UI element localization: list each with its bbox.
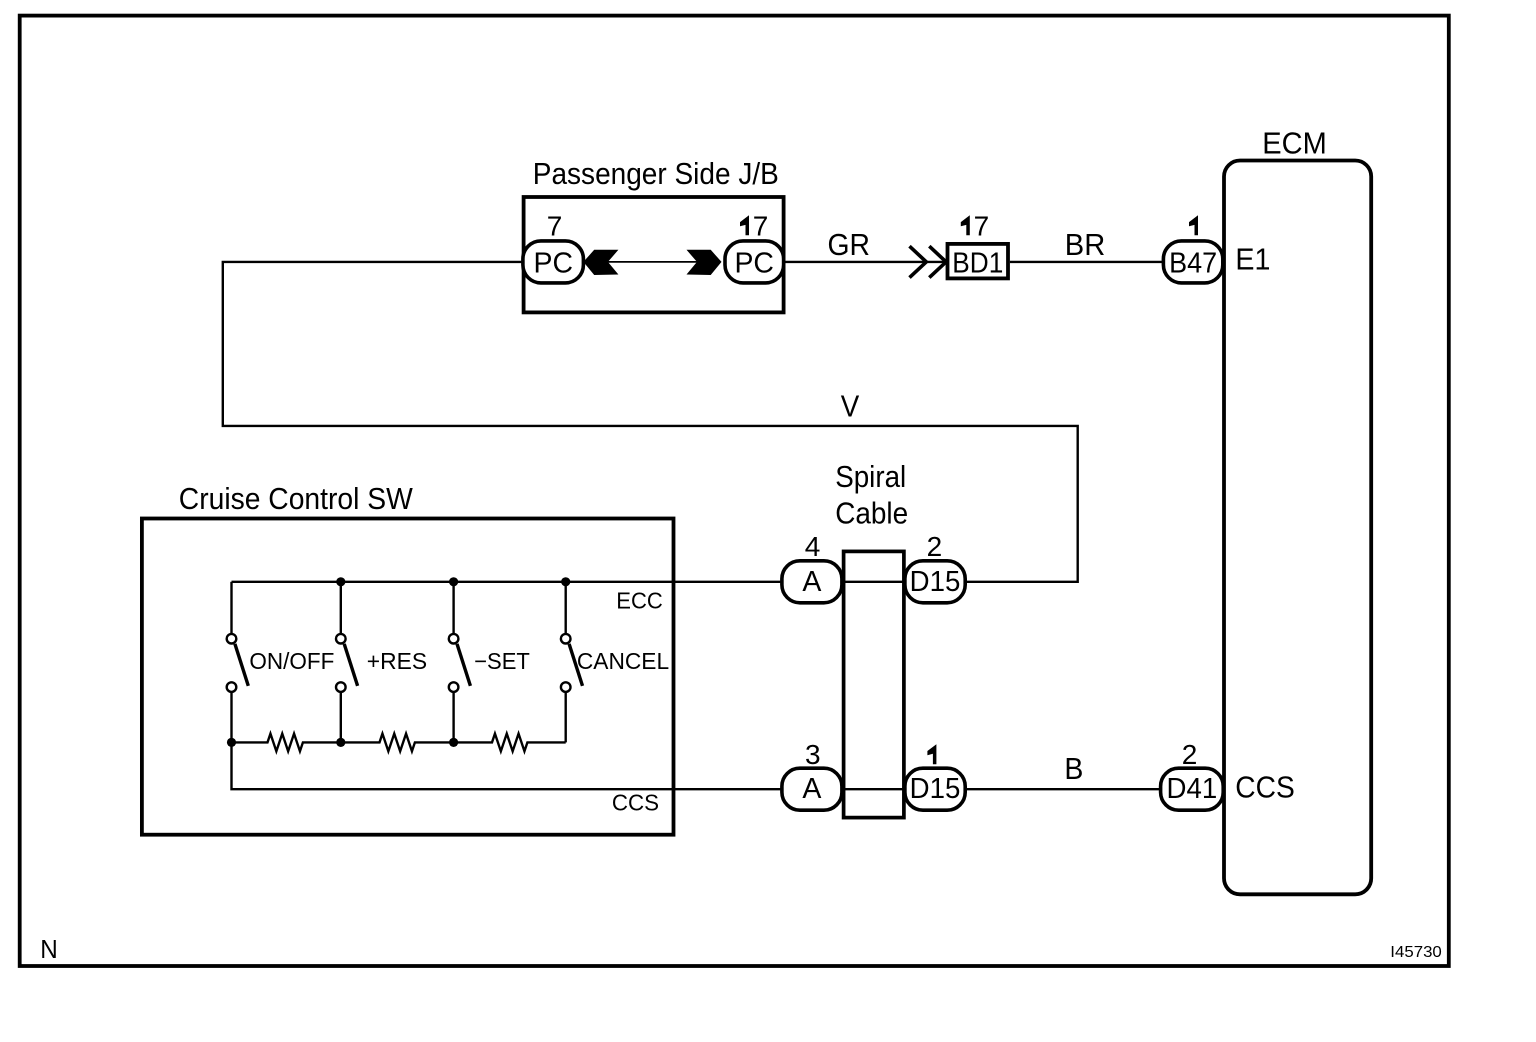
svg-text:CANCEL: CANCEL — [577, 648, 669, 674]
svg-text:3: 3 — [805, 739, 821, 770]
wire CCS row to spiral cable — [783, 788, 963, 790]
svg-text:B47: B47 — [1169, 247, 1217, 279]
svg-text:D15: D15 — [910, 566, 961, 598]
junction top bus / CANCEL column — [561, 577, 570, 586]
svg-text:B: B — [1064, 752, 1083, 786]
switch -SET — [449, 634, 530, 692]
svg-text:Cable: Cable — [835, 497, 908, 531]
svg-text:D41: D41 — [1167, 773, 1218, 805]
svg-text:Passenger Side J/B: Passenger Side J/B — [533, 157, 779, 191]
svg-text:I45730: I45730 — [1390, 944, 1442, 961]
Passenger Side J/B box — [524, 197, 784, 312]
switch ON/OFF — [227, 634, 335, 692]
svg-text:E1: E1 — [1235, 243, 1270, 277]
wire switch column 2 verticals — [340, 582, 342, 634]
junction top bus / +RES column — [336, 577, 345, 586]
svg-text:2: 2 — [927, 531, 943, 562]
svg-text:BR: BR — [1065, 228, 1106, 262]
svg-text:PC: PC — [734, 247, 774, 279]
svg-text:7: 7 — [753, 210, 769, 241]
svg-text:BD1: BD1 — [952, 247, 1003, 279]
svg-text:ON/OFF: ON/OFF — [249, 648, 334, 674]
wire switch column 3 verticals — [452, 582, 454, 634]
arrow into PC 17 (right-pointing) — [687, 250, 722, 275]
svg-text:GR: GR — [828, 228, 871, 262]
svg-text:7: 7 — [547, 210, 563, 241]
connector D15 pin 2 — [905, 531, 965, 603]
wire switch column 1 verticals — [230, 582, 232, 634]
svg-text:7: 7 — [974, 210, 990, 241]
wire between PC arrows — [585, 261, 720, 263]
svg-text:A: A — [802, 773, 821, 805]
svg-text:+RES: +RES — [367, 648, 427, 674]
connector A pin 4 — [782, 531, 842, 603]
resistor R1 — [232, 734, 341, 752]
wire CCS through spiral cable — [844, 788, 904, 790]
svg-text:ECC: ECC — [616, 587, 663, 613]
svg-text:N: N — [40, 934, 58, 964]
svg-text:PC: PC — [534, 247, 574, 279]
svg-text:CCS: CCS — [612, 790, 659, 816]
connector PC pin 7 — [523, 210, 584, 283]
connector A pin 3 — [782, 739, 842, 810]
wire BD1 to B47 (BR wire) — [1010, 261, 1165, 263]
Cruise Control SW box — [142, 519, 674, 835]
svg-text:ECM: ECM — [1262, 127, 1327, 161]
wire switch column 4 verticals — [565, 582, 567, 634]
junction top bus / -SET column — [449, 577, 458, 586]
svg-text:A: A — [802, 566, 821, 598]
svg-text:Cruise Control SW: Cruise Control SW — [179, 482, 413, 516]
svg-text:Spiral: Spiral — [835, 460, 906, 494]
svg-text:D15: D15 — [910, 773, 961, 805]
junction resistor row / +RES column — [336, 738, 345, 747]
resistor R2 — [341, 734, 454, 752]
wire PC17 to BD1 (GR wire) — [784, 261, 946, 263]
splice chevron 1 before BD1 — [910, 246, 927, 277]
connector BD1 pin 17 — [948, 210, 1009, 279]
connector D15 pin 1 — [905, 744, 965, 810]
junction resistor row / ON-OFF column — [227, 738, 236, 747]
splice chevron 2 before BD1 — [929, 246, 946, 277]
spiral cable body — [844, 551, 904, 817]
wire ECC bus (top) — [232, 581, 784, 583]
svg-text:CCS: CCS — [1235, 770, 1295, 804]
switch CANCEL — [561, 634, 669, 692]
connector PC pin 17 — [725, 210, 784, 283]
svg-text:−SET: −SET — [474, 648, 530, 674]
switch +RES — [336, 634, 427, 692]
svg-text:2: 2 — [1182, 739, 1198, 770]
wire ECC through spiral cable — [844, 581, 904, 583]
ECM box — [1224, 161, 1371, 895]
svg-text:V: V — [841, 390, 860, 424]
arrow into PC 7 (left-pointing) — [583, 250, 618, 275]
resistor R3 — [454, 734, 566, 752]
wire D15-1 to D41 (B wire) — [963, 788, 1163, 790]
wire PC7 to D15 via V net (left long path) — [223, 262, 1078, 582]
connector D41 pin 2 — [1161, 739, 1224, 810]
wire CCS lower run — [232, 742, 784, 789]
connector B47 pin 1 — [1163, 215, 1222, 283]
svg-text:4: 4 — [805, 531, 821, 562]
junction resistor row / -SET column — [449, 738, 458, 747]
